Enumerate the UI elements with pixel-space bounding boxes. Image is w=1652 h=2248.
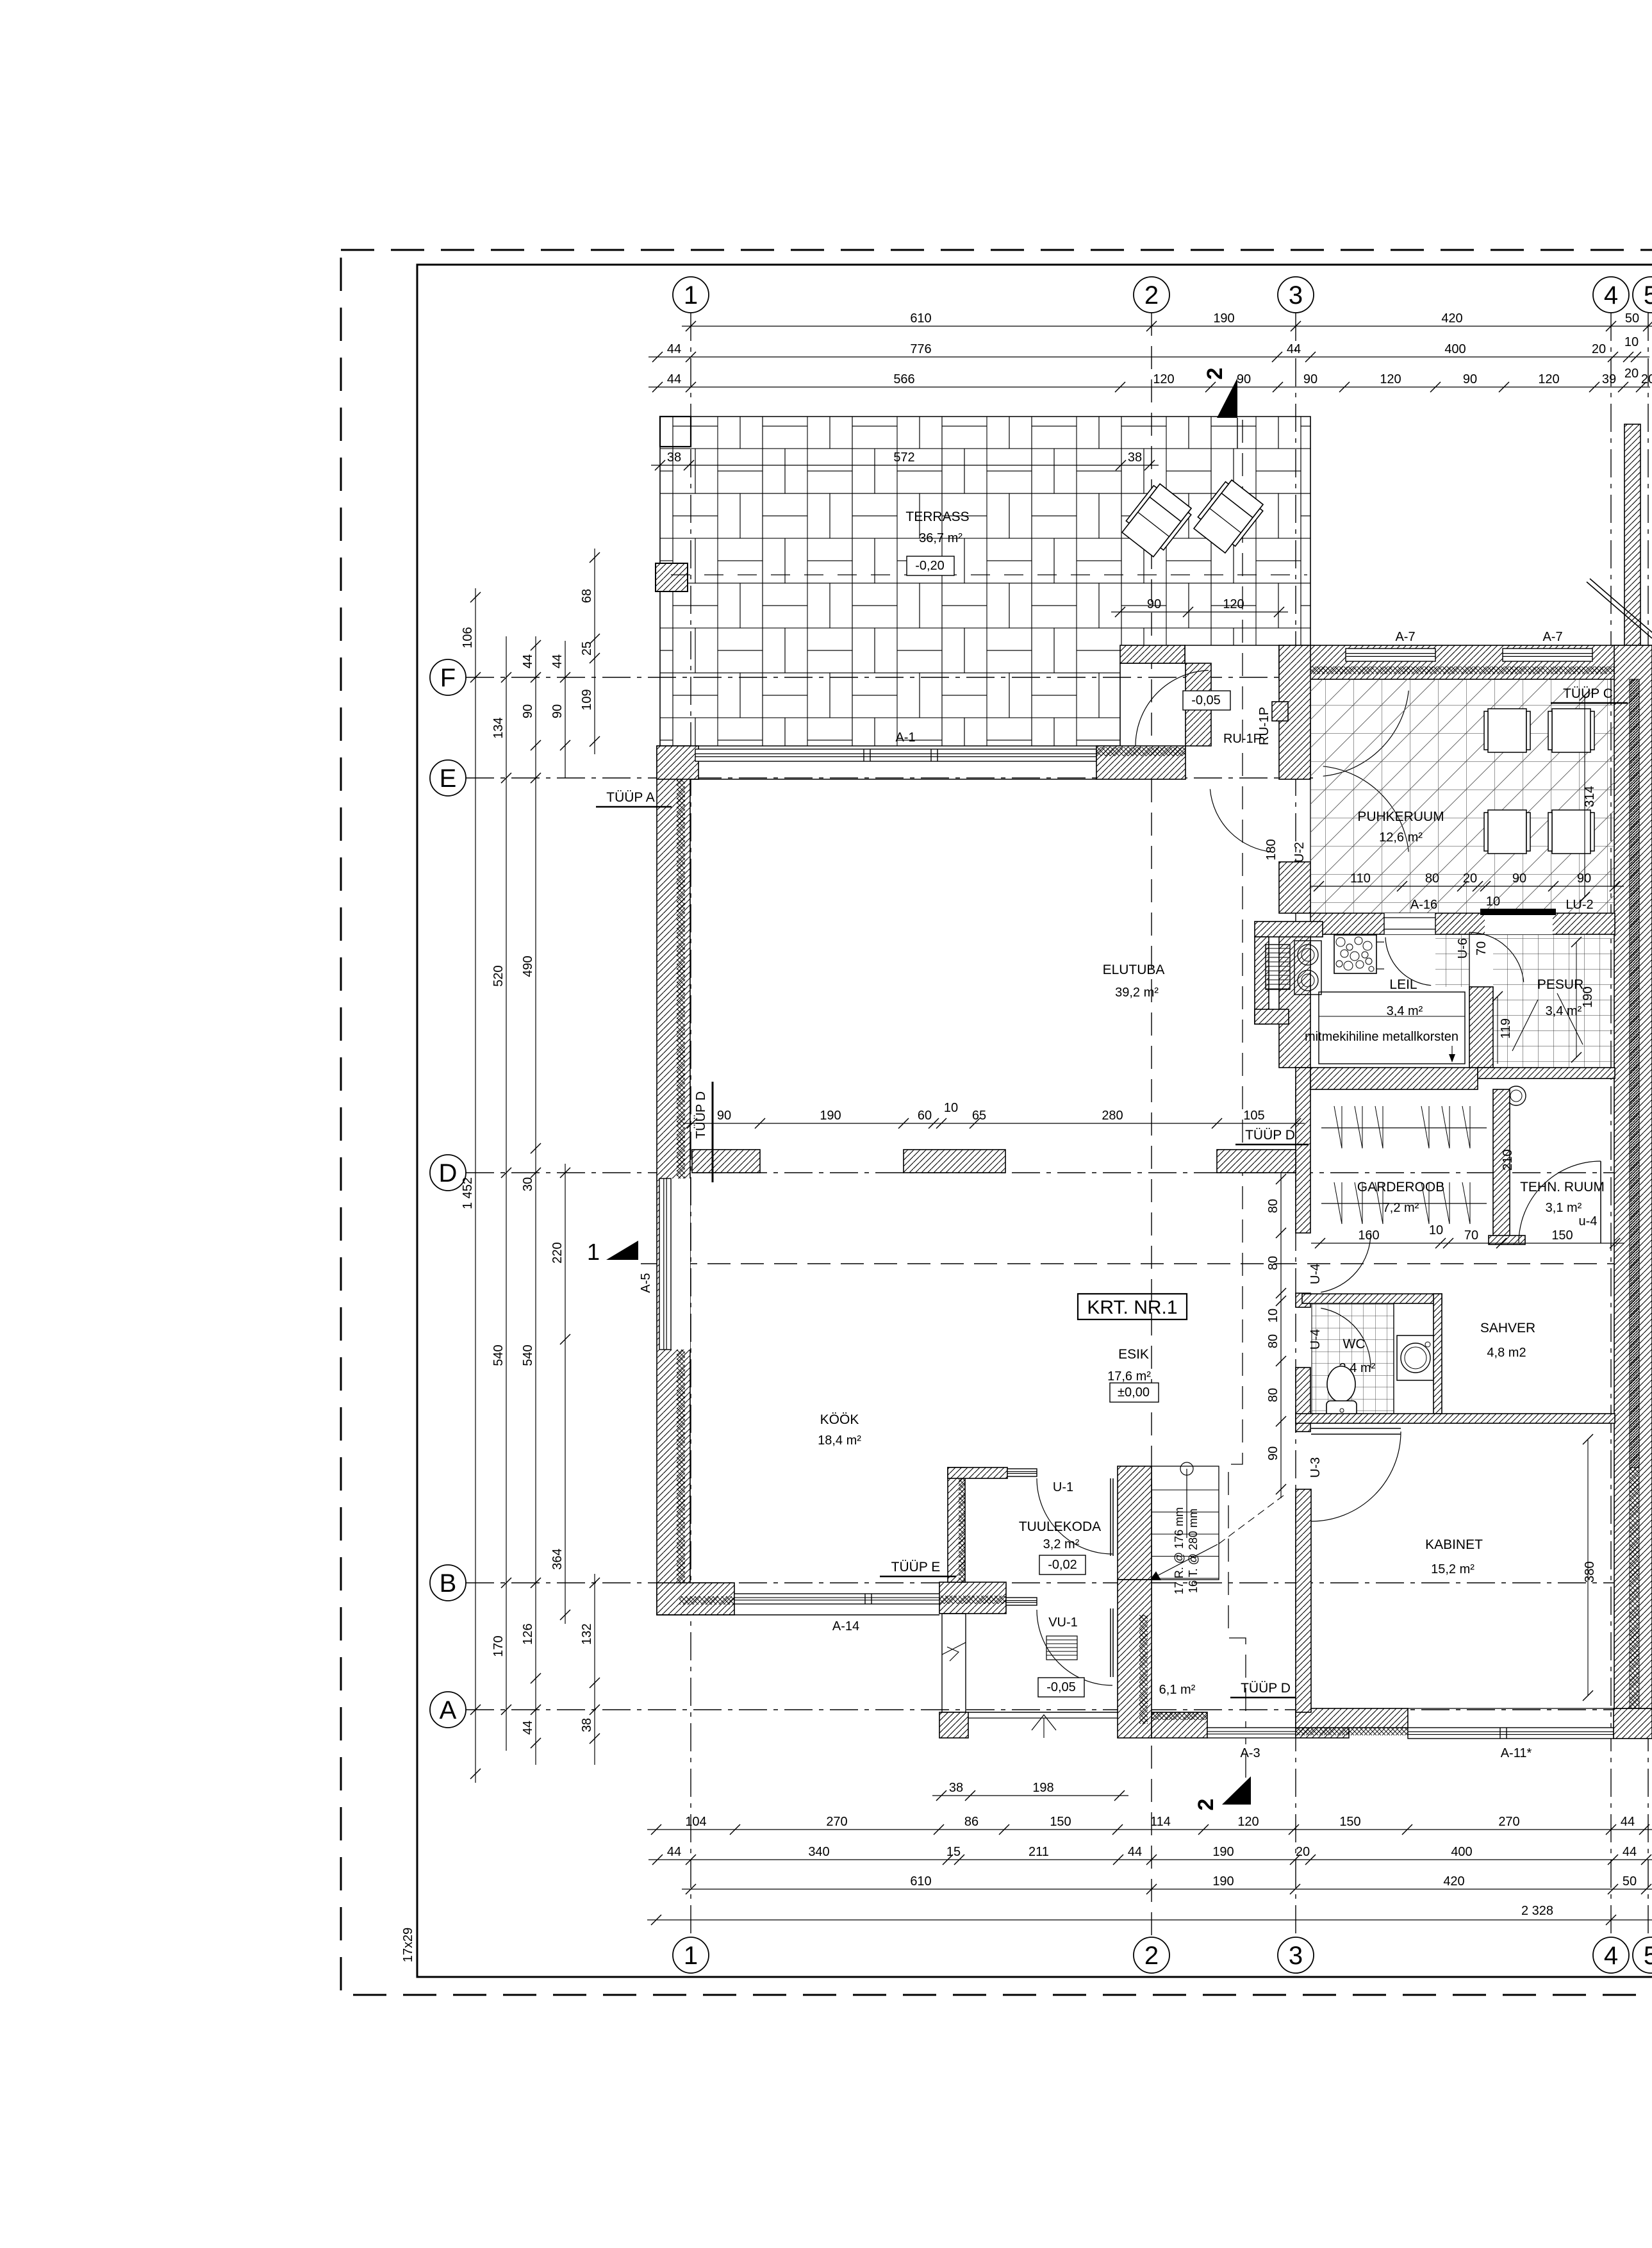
leil bench	[1319, 992, 1465, 1064]
svg-text:610: 610	[910, 1874, 931, 1888]
door LU-2 bar	[1480, 909, 1556, 915]
puhkeruum floor tiles	[1310, 679, 1615, 913]
kabinet dim 380	[1587, 1439, 1589, 1696]
page dashed border	[341, 250, 1652, 1995]
svg-text:20: 20	[1624, 367, 1639, 381]
svg-text:119: 119	[1499, 1018, 1513, 1039]
svg-text:86: 86	[964, 1815, 979, 1829]
wall south stub E window	[1006, 1598, 1037, 1605]
svg-text:A-7: A-7	[1542, 630, 1562, 644]
svg-text:4: 4	[1604, 281, 1618, 310]
svg-text:10: 10	[944, 1101, 958, 1115]
level -0.02	[1039, 1555, 1086, 1574]
drawing frame	[417, 265, 1652, 1977]
door LU-2 gap	[1485, 915, 1553, 934]
svg-text:80: 80	[1266, 1334, 1280, 1348]
svg-text:TÜÜP A: TÜÜP A	[606, 790, 654, 805]
svg-text:400: 400	[1444, 342, 1466, 356]
section line 1 horizontal	[641, 1263, 1652, 1264]
svg-text:44: 44	[667, 342, 681, 356]
svg-text:198: 198	[1032, 1781, 1053, 1795]
svg-text:44: 44	[1287, 342, 1301, 356]
door U-2 arcs	[1323, 691, 1409, 777]
chair 2	[1548, 709, 1594, 752]
grid bubble 4 top	[1593, 277, 1629, 313]
svg-text:70: 70	[1474, 941, 1489, 955]
grid bubble 2 top	[1134, 277, 1169, 313]
wall above kabinet	[1296, 1414, 1615, 1423]
svg-text:340: 340	[808, 1845, 829, 1859]
tuulekoda west wall	[948, 1467, 965, 1582]
grid bubble 3 bottom	[1278, 1937, 1314, 1973]
tuulekoda north window	[1007, 1469, 1037, 1476]
svg-text:44: 44	[521, 1721, 535, 1735]
grid bubble 3 top	[1278, 277, 1314, 313]
svg-text:38: 38	[1128, 450, 1142, 465]
section line 2 vertical	[1228, 420, 1246, 1788]
pesur dim 190	[1576, 942, 1577, 1057]
svg-text:mitmekihiline metallkorsten: mitmekihiline metallkorsten	[1305, 1030, 1458, 1044]
svg-text:ESIK: ESIK	[1118, 1347, 1149, 1362]
ru1p corner post	[1272, 702, 1288, 721]
east wall dark strip	[1630, 679, 1639, 1467]
svg-text:17x29: 17x29	[401, 1928, 415, 1963]
garderoob rail	[1321, 1127, 1487, 1128]
grid bubble 1 bottom	[673, 1937, 709, 1973]
svg-text:5: 5	[1644, 281, 1652, 310]
tuulekoda west wall insul	[959, 1477, 965, 1582]
sauna north wall	[1279, 645, 1652, 679]
door U-3 leaf	[1311, 1428, 1401, 1429]
tehn dims	[1311, 1243, 1624, 1244]
door A-16 gap	[1384, 913, 1435, 934]
window A-11	[1408, 1728, 1614, 1739]
svg-text:20: 20	[1296, 1845, 1310, 1859]
svg-text:520: 520	[491, 965, 506, 986]
grid line row A	[466, 1709, 1652, 1710]
east wall upper strip	[1624, 424, 1640, 645]
svg-text:90: 90	[1577, 872, 1591, 886]
svg-text:190: 190	[1212, 1845, 1234, 1859]
sauna north wall stub W	[1120, 645, 1185, 663]
chair 3	[1484, 810, 1530, 854]
svg-text:70: 70	[1464, 1228, 1478, 1243]
svg-text:20: 20	[1463, 872, 1477, 886]
svg-text:105: 105	[1243, 1109, 1264, 1123]
svg-text:420: 420	[1443, 1874, 1464, 1888]
puhkeruum dims	[1310, 886, 1624, 887]
svg-text:44: 44	[1621, 1815, 1635, 1829]
door U-1 leaf	[1110, 1478, 1111, 1556]
svg-text:120: 120	[1153, 372, 1174, 386]
left dim line x882 top	[565, 641, 566, 778]
svg-text:150: 150	[1339, 1815, 1360, 1829]
svg-text:PESUR.: PESUR.	[1537, 977, 1587, 992]
stair west wall	[1118, 1466, 1152, 1580]
svg-text:6,1 m²: 6,1 m²	[1159, 1683, 1196, 1697]
grid line col 3	[1295, 313, 1296, 1937]
svg-text:F: F	[440, 664, 456, 692]
svg-text:44: 44	[521, 654, 535, 668]
chair 1	[1484, 709, 1530, 752]
svg-text:90: 90	[1303, 372, 1317, 386]
svg-text:38: 38	[949, 1781, 963, 1795]
wall row A west insul	[1152, 1712, 1207, 1720]
dim row top 44/566/...	[648, 386, 1650, 388]
sauna west wall seg3	[1279, 934, 1310, 1068]
svg-text:10: 10	[1624, 335, 1639, 349]
svg-text:TÜÜP D: TÜÜP D	[1241, 1681, 1291, 1696]
svg-text:GARDEROOB: GARDEROOB	[1357, 1180, 1445, 1194]
porch edge lines	[968, 1712, 1118, 1713]
roofline diagonal	[1587, 582, 1652, 638]
svg-text:106: 106	[461, 627, 475, 648]
wall north-east insul	[1096, 747, 1185, 756]
lounge chair 1	[1119, 481, 1194, 559]
door U-4a arc	[1321, 1233, 1371, 1293]
dim 38/198	[932, 1795, 1128, 1796]
svg-text:20: 20	[1592, 342, 1606, 356]
wall west insulation	[677, 746, 685, 1615]
sauna west wall seg1	[1279, 645, 1310, 779]
svg-text:490: 490	[521, 955, 535, 977]
svg-text:25: 25	[580, 641, 594, 656]
svg-text:65: 65	[972, 1109, 986, 1123]
terrace dim 38/572/38	[651, 465, 1159, 466]
grid bubble 1 top	[673, 277, 709, 313]
svg-text:VU-1: VU-1	[1048, 1616, 1078, 1630]
svg-text:280: 280	[1102, 1109, 1123, 1123]
krt nr1 label	[1078, 1294, 1187, 1319]
wall leil-pesur	[1469, 987, 1493, 1068]
toilet	[1327, 1366, 1355, 1402]
svg-text:4: 4	[1604, 1942, 1618, 1970]
svg-text:38: 38	[580, 1718, 594, 1732]
terrace dim 90/120	[1111, 611, 1288, 613]
svg-text:5: 5	[1644, 1942, 1652, 1970]
esik east wall a	[1296, 1068, 1310, 1233]
svg-text:110: 110	[1350, 872, 1371, 886]
svg-text:210: 210	[1501, 1149, 1515, 1170]
stair west wall insul	[1139, 1615, 1148, 1724]
svg-text:80: 80	[1425, 872, 1439, 886]
grid line col 4	[1610, 313, 1612, 1937]
row D stub 2	[904, 1150, 1005, 1173]
svg-text:B: B	[440, 1569, 457, 1598]
svg-text:420: 420	[1441, 311, 1462, 326]
svg-text:44: 44	[1128, 1845, 1142, 1859]
ru1p wall stub	[1185, 663, 1211, 746]
door VU-1 leaf	[1110, 1608, 1111, 1677]
wall north-east part	[1096, 746, 1185, 779]
terrace level axis	[671, 574, 1307, 575]
svg-text:2: 2	[1194, 1799, 1218, 1811]
grid bubble 4 bottom	[1593, 1937, 1629, 1973]
grid line row F	[466, 677, 1652, 678]
svg-text:17,6 m²: 17,6 m²	[1107, 1369, 1151, 1384]
svg-text:17 R. @ 176 mm: 17 R. @ 176 mm	[1173, 1507, 1185, 1594]
svg-text:D: D	[439, 1159, 458, 1187]
window A-7 no1	[1346, 649, 1435, 661]
svg-text:10: 10	[1486, 895, 1500, 909]
svg-text:10: 10	[1266, 1309, 1280, 1323]
svg-text:90: 90	[1147, 597, 1161, 611]
esik east dims	[1280, 1170, 1282, 1498]
svg-text:190: 190	[1212, 1874, 1234, 1888]
svg-text:10: 10	[1429, 1223, 1443, 1237]
svg-text:TUULEKODA: TUULEKODA	[1019, 1519, 1101, 1534]
sauna west wall seg4	[1296, 1293, 1310, 1307]
left dim col5	[594, 549, 595, 754]
svg-text:3,2 m²: 3,2 m²	[1043, 1537, 1080, 1551]
svg-text:90: 90	[717, 1109, 731, 1123]
vestibule floor	[1435, 934, 1469, 987]
svg-text:400: 400	[1451, 1845, 1472, 1859]
svg-text:-0,05: -0,05	[1191, 693, 1221, 707]
terrace paving	[660, 417, 1310, 746]
level -0.05 porch	[1038, 1678, 1084, 1697]
svg-text:190: 190	[1581, 986, 1595, 1007]
porch step stripes	[1046, 1636, 1077, 1660]
wall row A mid part	[1296, 1712, 1349, 1738]
svg-text:U-3: U-3	[1309, 1457, 1323, 1478]
svg-text:2: 2	[1144, 1942, 1159, 1970]
grid line row B	[466, 1582, 1652, 1583]
left dim col4	[565, 1164, 566, 1624]
stair treads	[1152, 1466, 1219, 1580]
svg-text:SAHVER: SAHVER	[1480, 1321, 1535, 1335]
sauna west wall seg2	[1279, 862, 1310, 913]
svg-text:E: E	[440, 764, 457, 793]
svg-text:A-11*: A-11*	[1501, 1746, 1532, 1760]
svg-text:160: 160	[1358, 1228, 1379, 1243]
wall west	[657, 746, 690, 1615]
svg-text:180: 180	[1264, 839, 1278, 860]
svg-text:540: 540	[521, 1344, 535, 1366]
svg-text:610: 610	[910, 311, 931, 326]
dim row top 610/190/420/50	[682, 326, 1652, 327]
svg-text:120: 120	[1237, 1815, 1259, 1829]
svg-text:2: 2	[1144, 281, 1159, 310]
window A-3	[1207, 1728, 1296, 1738]
svg-text:90: 90	[1463, 372, 1477, 386]
svg-text:u-4: u-4	[1579, 1214, 1598, 1228]
svg-text:A-7: A-7	[1395, 630, 1415, 644]
wall SE corner	[1614, 1708, 1652, 1739]
svg-text:U-2: U-2	[1293, 842, 1307, 863]
washer	[1397, 1335, 1434, 1380]
left dim 134/520/540/170	[506, 636, 507, 1751]
svg-text:1: 1	[684, 281, 698, 310]
svg-text:150: 150	[1050, 1815, 1071, 1829]
svg-text:15: 15	[946, 1845, 961, 1859]
window A-14	[734, 1594, 941, 1604]
grid line col 1	[690, 313, 691, 1937]
svg-text:90: 90	[1266, 1446, 1280, 1460]
svg-text:30: 30	[521, 1177, 535, 1191]
grid bubble B left	[430, 1565, 466, 1601]
svg-text:134: 134	[491, 717, 506, 738]
dim row bot total	[647, 1919, 1652, 1921]
left dim 106/1452	[475, 588, 476, 1783]
sahver west wall	[1433, 1294, 1442, 1414]
svg-text:50: 50	[1623, 1874, 1637, 1888]
dim row bot 2	[648, 1859, 1652, 1860]
svg-text:566: 566	[893, 372, 914, 386]
grid bubble 5 top	[1633, 277, 1652, 313]
svg-text:-0,05: -0,05	[1046, 1680, 1076, 1694]
tuulekoda north wall	[948, 1467, 1007, 1478]
svg-text:60: 60	[918, 1109, 932, 1123]
svg-text:RU-1P: RU-1P	[1223, 732, 1262, 746]
svg-text:90: 90	[1237, 372, 1251, 386]
wall kabinet south insul	[1296, 1728, 1408, 1735]
svg-text:90: 90	[550, 704, 565, 718]
svg-text:4,8 m2: 4,8 m2	[1487, 1346, 1526, 1360]
svg-text:KABINET: KABINET	[1425, 1537, 1483, 1552]
puhkeruum dim 314	[1584, 695, 1585, 897]
svg-text:126: 126	[521, 1623, 535, 1644]
svg-text:36,7 m²: 36,7 m²	[919, 531, 962, 545]
pesur dim 119	[1497, 996, 1498, 1064]
svg-text:KRT. NR.1: KRT. NR.1	[1087, 1297, 1177, 1318]
svg-text:540: 540	[491, 1344, 506, 1366]
shower arrows	[1512, 1000, 1538, 1051]
svg-text:170: 170	[491, 1635, 506, 1657]
east wall lower insul	[1630, 1467, 1639, 1708]
row D stub 3	[1217, 1150, 1296, 1173]
svg-text:104: 104	[685, 1815, 706, 1829]
garderoob hangers	[1334, 1106, 1342, 1148]
svg-text:WC: WC	[1343, 1337, 1366, 1351]
label -0.05 top	[1183, 691, 1230, 710]
garderoob south stub	[1489, 1236, 1525, 1244]
grid line col 5	[1648, 313, 1649, 1937]
svg-text:380: 380	[1583, 1561, 1597, 1582]
wall south stub E insul	[939, 1596, 1006, 1604]
svg-text:U-1: U-1	[1053, 1480, 1073, 1494]
svg-text:120: 120	[1223, 597, 1244, 611]
svg-text:TÜÜP E: TÜÜP E	[891, 1560, 941, 1574]
svg-text:TÜÜP C: TÜÜP C	[1563, 686, 1613, 701]
svg-text:ELUTUBA: ELUTUBA	[1103, 963, 1165, 977]
svg-text:LEIL: LEIL	[1389, 977, 1417, 992]
kabinet floor line south	[1408, 1708, 1614, 1709]
svg-text:211: 211	[1028, 1845, 1049, 1859]
svg-text:132: 132	[580, 1623, 594, 1644]
wall south W corner	[657, 1583, 734, 1615]
wall north corner NW	[657, 746, 698, 779]
svg-text:39,2 m²: 39,2 m²	[1115, 986, 1159, 1000]
svg-text:TÜÜP D: TÜÜP D	[1245, 1128, 1295, 1143]
door u-4 tehn	[1600, 1161, 1601, 1243]
svg-text:2 328: 2 328	[1521, 1904, 1553, 1918]
stair porch wall lower	[1118, 1580, 1152, 1738]
window A-1 north	[695, 749, 1096, 761]
grid bubble A left	[430, 1692, 466, 1728]
sauna north insul	[1310, 666, 1615, 674]
wc floor	[1312, 1303, 1394, 1423]
svg-text:A-16: A-16	[1410, 898, 1437, 912]
wall south bottom line	[657, 1614, 939, 1616]
svg-text:572: 572	[893, 450, 914, 465]
door U-4b arc	[1321, 1308, 1371, 1368]
svg-text:90: 90	[521, 704, 535, 718]
pesur south wall	[1478, 1068, 1615, 1079]
svg-text:44: 44	[667, 372, 681, 386]
svg-text:80: 80	[1266, 1199, 1280, 1213]
terrace post west	[656, 563, 688, 591]
svg-text:114: 114	[1150, 1815, 1171, 1829]
svg-text:50: 50	[1625, 311, 1639, 326]
wall row A west part	[1152, 1712, 1207, 1738]
wall gard-tehn	[1493, 1089, 1510, 1243]
svg-text:TEHN. RUUM: TEHN. RUUM	[1520, 1180, 1605, 1194]
section marker 1	[606, 1241, 638, 1260]
svg-text:220: 220	[550, 1242, 565, 1263]
svg-text:44: 44	[1623, 1845, 1637, 1859]
dim row bot 3	[682, 1888, 1652, 1890]
svg-text:TERRASS: TERRASS	[905, 509, 969, 524]
svg-text:A: A	[440, 1696, 457, 1724]
grid line row D	[466, 1172, 1652, 1173]
svg-text:90: 90	[1512, 872, 1526, 886]
wall kabinet south	[1296, 1708, 1408, 1728]
svg-text:190: 190	[1213, 311, 1234, 326]
svg-text:A-1: A-1	[895, 731, 915, 745]
svg-text:120: 120	[1538, 372, 1559, 386]
svg-text:-0,20: -0,20	[915, 559, 945, 573]
door U-6 arc	[1469, 932, 1524, 982]
leil south wall	[1310, 1068, 1478, 1089]
wall puhk-leil	[1310, 913, 1615, 934]
window A-7 no2	[1503, 649, 1592, 661]
svg-text:109: 109	[580, 689, 594, 710]
svg-text:7,2 m²: 7,2 m²	[1383, 1201, 1419, 1215]
grid line row E	[466, 777, 1314, 779]
svg-text:38: 38	[667, 450, 681, 465]
grid bubble D left	[430, 1155, 466, 1191]
pesur floor	[1493, 934, 1615, 1068]
lounge chair 2	[1191, 477, 1266, 555]
svg-text:±0,00: ±0,00	[1118, 1385, 1150, 1400]
window A-5 west	[659, 1178, 690, 1350]
grid bubble 2 bottom	[1134, 1937, 1169, 1973]
dim row top 44/776/44/400/20	[648, 356, 1649, 358]
svg-text:1: 1	[684, 1942, 698, 1970]
svg-text:12,6 m²: 12,6 m²	[1379, 831, 1423, 845]
section marker 2 bottom	[1222, 1776, 1251, 1805]
ru1p door arcs	[1136, 670, 1209, 746]
washer wall	[1393, 1303, 1394, 1423]
svg-text:KÖÖK: KÖÖK	[820, 1412, 859, 1427]
svg-text:270: 270	[826, 1815, 847, 1829]
grid bubble F left	[430, 659, 466, 695]
heater stone box	[1334, 935, 1376, 973]
terrace level -0.20	[907, 556, 954, 575]
svg-text:15,2 m²: 15,2 m²	[1431, 1562, 1474, 1576]
svg-text:80: 80	[1266, 1256, 1280, 1270]
grid bubble 5 bottom	[1633, 1937, 1652, 1973]
svg-text:776: 776	[910, 342, 931, 356]
svg-text:LU-2: LU-2	[1565, 898, 1593, 912]
sauna west wall seg6	[1296, 1489, 1311, 1712]
svg-text:A-3: A-3	[1240, 1746, 1260, 1760]
svg-text:U-4: U-4	[1309, 1264, 1323, 1284]
svg-text:120: 120	[1380, 372, 1401, 386]
chair 4	[1548, 810, 1594, 854]
grid bubble E left	[430, 760, 466, 796]
